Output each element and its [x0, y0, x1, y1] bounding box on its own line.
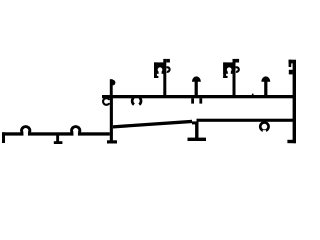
left vertical bar	[110, 95, 113, 143]
left vertical foot	[107, 140, 117, 143]
ticks under rail at stud 1	[191, 98, 194, 103]
bead bump 1 (omega arch with slot through bar)	[23, 129, 28, 136]
flat bottom rail	[197, 119, 297, 122]
left end cap	[2, 132, 5, 143]
gasket clip under top rail (pair of curls)	[132, 98, 134, 105]
bead bump 2 (omega arch with slot through bar)	[73, 129, 78, 136]
right end bar	[293, 60, 296, 144]
step at junction	[192, 121, 199, 124]
flag pin	[110, 79, 113, 95]
gasket ring under flat bottom rail	[260, 122, 268, 130]
mushroom stud 1	[195, 81, 198, 96]
T post under junction	[195, 124, 198, 138]
extrusion profile cross-section drawing	[0, 0, 300, 200]
screw-boss head 2	[223, 59, 239, 96]
tiny stub on rail	[252, 94, 254, 96]
screw-boss head 1	[154, 59, 170, 96]
mushroom stud 2	[264, 81, 267, 96]
right top tab	[289, 60, 293, 64]
left bottom bar	[2, 132, 110, 135]
top rail	[102, 95, 296, 98]
right bottom foot	[287, 140, 296, 143]
T tick 1	[56, 136, 59, 143]
right middle tab	[289, 70, 293, 75]
sloped bottom rail	[113, 120, 192, 129]
gasket hook under top-left rail end	[103, 98, 110, 105]
